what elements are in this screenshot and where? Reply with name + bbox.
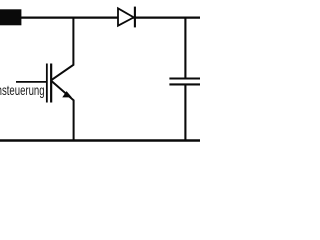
diode D1 triangle <box>118 8 134 25</box>
capacitor C1 bottom plate <box>169 83 200 85</box>
diode D1 cathode bar <box>134 7 136 28</box>
wire collector branch <box>51 18 73 81</box>
wire capacitor bottom lead <box>184 85 186 141</box>
wire bottom rail <box>0 139 200 141</box>
transistor Q1 gate bar <box>46 64 48 103</box>
wire capacitor top lead <box>184 17 186 78</box>
svg-text:nsteuerung: nsteuerung <box>0 82 45 98</box>
transistor Q1 emitter + wire to bottom rail <box>51 81 73 141</box>
wire top rail <box>21 17 200 19</box>
transistor Q1 body bar <box>50 64 52 103</box>
capacitor C1 top plate <box>169 78 200 80</box>
transistor Q1 emitter arrow <box>63 92 71 97</box>
source block (clipped black rectangle) <box>0 9 21 25</box>
wire gate lead <box>16 81 47 83</box>
